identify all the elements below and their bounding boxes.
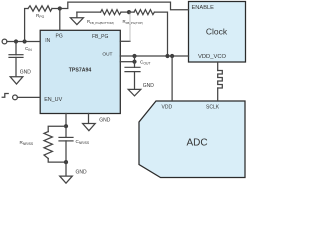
- wire FB_PG pin stub: [120, 40, 130, 42]
- wire R_FB_PG(TOP) to OUT rail riser: [154, 12, 167, 56]
- node divider riser on OUT rail: [165, 54, 169, 58]
- wire riser to R_PG: [25, 9, 28, 42]
- wire divider gnd to R_FB_PG(BOTTOM): [77, 11, 101, 13]
- pulse source symbol (EN_UV): [2, 94, 8, 98]
- svg-text:PG: PG: [56, 34, 63, 40]
- resistor R_FB_PG(TOP): [123, 10, 155, 25]
- svg-text:SCLK: SCLK: [206, 105, 220, 111]
- svg-text:FB_PG: FB_PG: [92, 34, 109, 40]
- wire EN_UV: [17, 96, 40, 98]
- node SNS tap: [132, 60, 136, 64]
- svg-text:RFB_PG(BOTTOM): RFB_PG(BOTTOM): [87, 19, 114, 25]
- wire Clock output drop: [217, 62, 219, 71]
- EN terminal: [13, 95, 18, 100]
- wire PG node to Clock ENABLE: [60, 2, 189, 10]
- Clock box: [189, 2, 246, 63]
- wire to divider midpoint: [121, 11, 129, 13]
- node ADC VDD tap: [170, 54, 174, 58]
- node NR/SS top: [64, 124, 68, 128]
- svg-text:IN: IN: [45, 38, 50, 44]
- node on IN wire (R_PG riser tap): [23, 39, 27, 43]
- ground (C_IN): [10, 57, 31, 84]
- svg-text:CIN: CIN: [25, 46, 32, 52]
- ground (IC GND pin): [83, 118, 111, 131]
- ground (feedback divider): [70, 12, 83, 25]
- svg-text:COUT: COUT: [140, 60, 151, 66]
- svg-text:GND: GND: [99, 118, 111, 124]
- svg-text:RPG: RPG: [36, 13, 45, 19]
- node NR/SS bottom: [64, 160, 68, 164]
- svg-text:OUT: OUT: [102, 51, 112, 57]
- node C_OUT tap: [132, 54, 136, 58]
- svg-text:VDD: VDD: [162, 105, 173, 111]
- wire NR/SS pin drop: [65, 114, 67, 127]
- node FB_PG divider midpoint: [127, 10, 131, 14]
- wire to R_NR/SS: [48, 126, 66, 131]
- wire R_NR/SS bottom return: [48, 159, 66, 163]
- resistor R_FB_PG(BOTTOM): [87, 10, 121, 25]
- wire R_PG to PG node: [52, 8, 60, 10]
- svg-text:ENABLE: ENABLE: [192, 5, 215, 11]
- input terminal: [2, 39, 7, 44]
- wire FB_PG stub riser to divider midpoint: [129, 12, 131, 41]
- svg-text:RNR/SS: RNR/SS: [20, 140, 34, 146]
- ADC box: [139, 101, 245, 178]
- wire PG pin drop: [59, 9, 61, 31]
- svg-text:ADC: ADC: [186, 138, 207, 149]
- capacitor C_IN: [9, 42, 32, 58]
- wire GND pin drop: [88, 114, 90, 124]
- ground (C_OUT): [128, 72, 154, 96]
- capacitor C_OUT: [125, 56, 151, 72]
- capacitor C_NR/SS: [59, 126, 90, 162]
- ground (NR/SS): [60, 162, 87, 183]
- svg-text:RFB_PG(TOP): RFB_PG(TOP): [123, 19, 143, 25]
- wire SNS pin stub: [120, 61, 134, 63]
- IC U1 TPS7A94 LDO regulator: [40, 30, 120, 113]
- svg-text:GND: GND: [20, 70, 32, 76]
- node on IN wire (C_IN tap): [14, 39, 18, 43]
- wire midpoint to R_FB_PG(TOP): [129, 11, 134, 13]
- wire IN: [7, 41, 40, 43]
- svg-text:GND: GND: [76, 170, 88, 176]
- wire OUT rail: [120, 55, 188, 57]
- wire to ADC SCLK: [217, 88, 219, 101]
- svg-text:EN_UV: EN_UV: [44, 97, 62, 103]
- clock signal symbol: [218, 71, 223, 89]
- svg-text:GND: GND: [143, 83, 155, 89]
- wire ADC VDD drop: [171, 56, 173, 101]
- svg-text:Clock: Clock: [206, 27, 228, 37]
- svg-text:TPS7A94: TPS7A94: [69, 68, 92, 74]
- svg-text:VDD_VCO: VDD_VCO: [198, 54, 227, 60]
- node PG: [58, 6, 62, 10]
- resistor R_NR/SS: [20, 132, 53, 159]
- resistor R_PG: [28, 6, 52, 19]
- svg-text:CNR/SS: CNR/SS: [76, 139, 90, 145]
